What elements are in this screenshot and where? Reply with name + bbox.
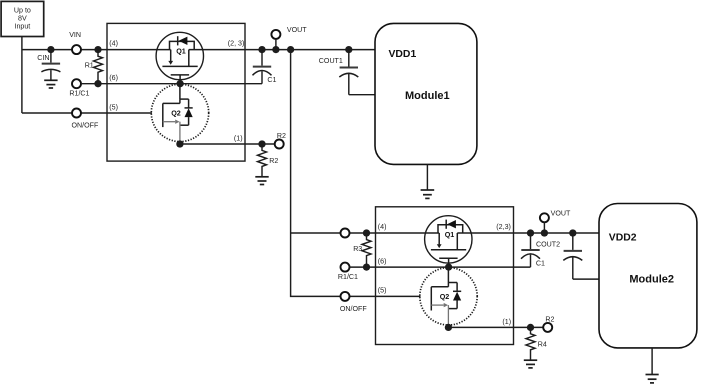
- svg-text:(1): (1): [502, 318, 511, 326]
- transistor Q2: [151, 84, 208, 144]
- svg-text:Input: Input: [15, 23, 31, 31]
- terminal VOUT second stage: [540, 210, 571, 233]
- svg-text:(5): (5): [109, 103, 118, 111]
- svg-text:C1: C1: [267, 76, 276, 84]
- wire pin 1 row: [180, 143, 275, 145]
- capacitor COUT1: [319, 50, 359, 95]
- svg-text:COUT1: COUT1: [319, 57, 343, 65]
- node VOUT2 stub: [541, 229, 548, 236]
- wire VOUT1 down to second stage ON/OFF row: [291, 50, 341, 297]
- terminal ON/OFF: [72, 109, 99, 130]
- node C1 second: [527, 229, 534, 236]
- transistor Q1 second stage: [425, 216, 472, 267]
- svg-text:(4): (4): [378, 223, 387, 231]
- wire VIN row (pin 4): [22, 49, 171, 51]
- IC block 1 outline: [107, 23, 245, 161]
- wire second stage VOUT row to Module2: [457, 232, 599, 234]
- wire COUT2 to Module2: [573, 278, 599, 280]
- svg-text:(2,3): (2,3): [496, 223, 511, 231]
- node COUT2: [569, 229, 576, 236]
- wire ON/OFF row (pin 5): [22, 112, 152, 114]
- terminal VOUT: [271, 26, 307, 49]
- transistor Q1: [156, 32, 203, 83]
- wire COUT1 to Module1: [349, 94, 375, 96]
- wire pin 6 row to C1: [81, 83, 262, 85]
- wire second stage pin 5 row: [350, 295, 421, 297]
- svg-text:R3: R3: [353, 245, 362, 253]
- node VIN/R1 junction: [94, 46, 101, 53]
- wire second stage pin 4 row: [291, 232, 440, 234]
- wire second stage pin 1 row: [448, 326, 543, 328]
- wire VOUT row (pins 2,3) to Module1: [189, 49, 375, 51]
- svg-text:(2, 3): (2, 3): [228, 40, 245, 48]
- node Q2 source second: [445, 324, 452, 331]
- svg-text:Q2: Q2: [440, 292, 450, 301]
- node branch to second stage: [287, 46, 294, 53]
- capacitor CIN: [37, 50, 60, 80]
- svg-text:ON/OFF: ON/OFF: [72, 122, 99, 130]
- node R3 / pin 6: [363, 263, 370, 270]
- node VOUT stub: [272, 46, 279, 53]
- svg-text:VIN: VIN: [69, 31, 81, 39]
- svg-text:R2: R2: [277, 132, 286, 140]
- voltage source box "Up to 8V Input": [1, 1, 44, 36]
- svg-text:Module1: Module1: [405, 90, 450, 102]
- node R2 junction: [258, 140, 265, 147]
- resistor R3: [353, 233, 371, 267]
- wire Module2 ground stem: [651, 348, 653, 374]
- svg-text:R1/C1: R1/C1: [69, 90, 89, 98]
- node Q1 gate / pin 6: [176, 80, 183, 87]
- resistor R4: [526, 327, 547, 359]
- terminal second stage VIN: [341, 229, 350, 238]
- wire second stage pin 6 row: [350, 266, 531, 268]
- node R4 junction: [527, 324, 534, 331]
- svg-text:COUT2: COUT2: [536, 240, 560, 248]
- terminal ON/OFF second stage: [340, 292, 367, 313]
- svg-text:Q1: Q1: [176, 47, 186, 56]
- terminal VIN: [69, 31, 81, 54]
- terminal R2: [275, 132, 286, 148]
- node Q1 gate second: [445, 263, 452, 270]
- capacitor C1: [253, 50, 277, 85]
- svg-text:(5): (5): [378, 287, 387, 295]
- resistor R2: [258, 144, 279, 176]
- svg-text:R2: R2: [545, 316, 554, 324]
- terminal R1/C1 second stage: [338, 263, 358, 282]
- transistor Q2 second stage: [420, 267, 477, 327]
- svg-text:(6): (6): [109, 74, 118, 82]
- svg-text:Module2: Module2: [629, 273, 674, 285]
- svg-text:VDD2: VDD2: [609, 232, 637, 243]
- module Module1: [375, 23, 477, 164]
- node Q2 source / pin 1: [176, 140, 183, 147]
- wire from source box down to VIN and ON/OFF rows: [21, 37, 23, 114]
- svg-text:R2: R2: [269, 157, 278, 165]
- wire Module1 ground stem: [426, 164, 428, 189]
- terminal R1/C1: [69, 79, 89, 98]
- svg-text:C1: C1: [536, 260, 545, 268]
- svg-text:R1/C1: R1/C1: [338, 273, 358, 281]
- ground below Module2: [646, 375, 659, 383]
- node COUT1: [345, 46, 352, 53]
- terminal R2 second stage: [543, 316, 554, 332]
- svg-text:ON/OFF: ON/OFF: [340, 305, 367, 313]
- svg-text:CIN: CIN: [37, 54, 49, 62]
- svg-text:VDD1: VDD1: [389, 49, 417, 60]
- svg-text:Q1: Q1: [445, 230, 455, 239]
- svg-text:(1): (1): [234, 135, 243, 143]
- node C1 / VOUT: [258, 46, 265, 53]
- svg-text:VOUT: VOUT: [551, 210, 571, 218]
- capacitor C1 second stage: [521, 233, 545, 268]
- ground below R2: [255, 177, 268, 185]
- ground below R4: [524, 360, 537, 368]
- node R3 top: [363, 229, 370, 236]
- svg-text:Q2: Q2: [171, 109, 181, 118]
- svg-text:(6): (6): [378, 257, 387, 265]
- resistor R1: [85, 50, 103, 84]
- svg-text:Up to: Up to: [14, 7, 31, 15]
- ground below Module1: [421, 190, 435, 198]
- capacitor COUT2: [536, 233, 582, 279]
- IC block 2 outline: [376, 207, 514, 345]
- module Module2: [599, 204, 697, 348]
- ground below CIN: [44, 80, 57, 88]
- node R1/pin6 junction: [94, 80, 101, 87]
- svg-text:VOUT: VOUT: [287, 26, 307, 34]
- svg-text:R4: R4: [538, 340, 547, 348]
- svg-text:8V: 8V: [18, 15, 27, 23]
- node CIN junction: [47, 46, 54, 53]
- svg-text:(4): (4): [109, 40, 118, 48]
- svg-text:R1: R1: [85, 62, 94, 70]
